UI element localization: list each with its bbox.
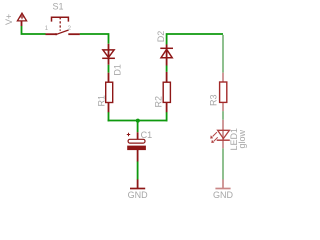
svg-text:1: 1	[45, 26, 49, 32]
svg-text:D2: D2	[156, 31, 166, 43]
svg-text:GND: GND	[128, 190, 149, 200]
svg-text:D1: D1	[113, 64, 123, 76]
svg-text:V+: V+	[4, 14, 14, 25]
svg-text:S1: S1	[53, 2, 64, 12]
svg-text:glow: glow	[237, 129, 247, 148]
svg-text:R3: R3	[208, 94, 218, 106]
svg-text:2: 2	[68, 26, 72, 32]
svg-text:C1: C1	[141, 130, 153, 140]
svg-text:R2: R2	[153, 96, 163, 108]
svg-text:R1: R1	[96, 95, 106, 107]
svg-text:GND: GND	[213, 190, 234, 200]
